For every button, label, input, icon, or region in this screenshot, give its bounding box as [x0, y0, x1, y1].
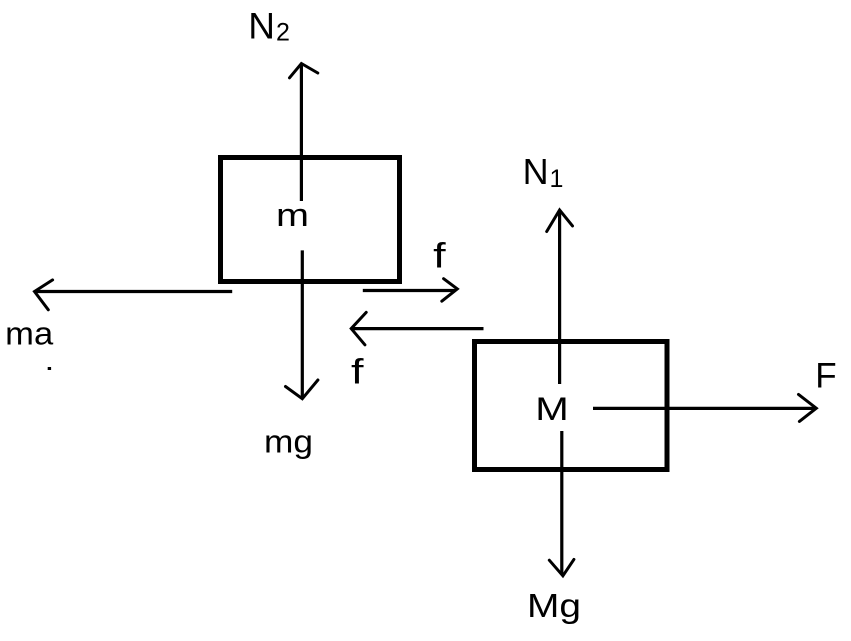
arrow f right shaft: [363, 289, 456, 292]
arrow ma shaft: [36, 290, 232, 293]
arrow F shaft: [593, 407, 814, 410]
block M: [475, 342, 668, 470]
svg-text:mg: mg: [264, 423, 313, 459]
svg-text:1: 1: [550, 165, 564, 193]
arrow mg shaft: [301, 250, 304, 397]
svg-text:f: f: [433, 237, 446, 276]
arrow N1 head: [547, 210, 573, 232]
svg-text:F: F: [815, 356, 836, 395]
arrow f left shaft: [353, 327, 484, 330]
arrow Mg head: [549, 559, 574, 575]
svg-text:ma: ma: [5, 316, 53, 352]
arrow mg head: [286, 380, 318, 399]
arrow f left head: [351, 312, 366, 344]
arrow Mg shaft: [560, 431, 563, 574]
svg-text:N: N: [248, 5, 275, 46]
arrow N1 shaft: [558, 212, 561, 384]
arrow N2 head: [290, 64, 318, 78]
arrow F head: [799, 394, 817, 421]
svg-text:f: f: [351, 353, 364, 392]
arrow f right head: [442, 279, 458, 302]
svg-text:M: M: [535, 391, 569, 427]
block m: [221, 158, 400, 282]
arrow N2 shaft: [300, 65, 303, 201]
svg-text:Mg: Mg: [527, 587, 581, 624]
svg-text:m: m: [276, 197, 309, 233]
arrow ma head: [35, 280, 53, 310]
svg-text:2: 2: [276, 19, 290, 47]
svg-text:N: N: [523, 151, 549, 192]
stray dot: [48, 367, 51, 370]
